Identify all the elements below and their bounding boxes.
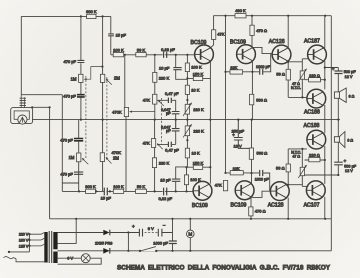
svg-text:1M: 1M — [69, 155, 75, 160]
mains cord squiggle — [4, 256, 45, 261]
node dot base row ch1 — [301, 96, 303, 98]
wire 220ohm row ch2 — [305, 159, 325, 161]
wire AC188 base row ch2 — [288, 148, 307, 150]
resistor 470 Q2 load — [250, 25, 267, 35]
svg-text:SCHEMA ELETTRICO DELLA FONOVAL: SCHEMA ELETTRICO DELLA FONOVALIGIA G.B.C… — [117, 265, 331, 272]
svg-text:2X35 PR8: 2X35 PR8 — [95, 242, 112, 246]
svg-text:47 Ω: 47 Ω — [292, 154, 300, 158]
wire AC188 base row ch1 — [288, 96, 307, 98]
capacitor 500uF ch2 — [334, 158, 357, 173]
capacitor 0.22uF ch2 — [158, 188, 172, 201]
capacitor 1000pF ch1 — [256, 65, 271, 75]
potentiometer 47K ch1 — [143, 94, 164, 106]
svg-text:12 V: 12 V — [345, 75, 353, 79]
capacitor 0.47uF ch2 — [165, 142, 179, 153]
wire mid signal bus — [32, 119, 340, 121]
resistor 56K ch1 — [136, 48, 146, 57]
wire gang link volume dashed — [85, 76, 87, 158]
wire Q1 Q9 emitter column — [209, 61, 211, 183]
transformer primary winding — [44, 232, 47, 263]
resistor 220ohm ch2 — [309, 153, 320, 162]
capacitor 470pF ch1 — [64, 59, 85, 64]
capacitor 15uF ch2 — [160, 178, 180, 183]
svg-text:470 Ω: 470 Ω — [255, 208, 266, 213]
wire 220ohm row ch1 — [305, 79, 325, 81]
capacitor 0.047uF ch2 — [161, 120, 179, 145]
wire 56ohm column ch2 — [287, 149, 289, 185]
wire 220K column ch2 — [154, 120, 156, 192]
svg-text:1M: 1M — [71, 76, 77, 81]
transistor AC128 Q3 — [269, 39, 291, 64]
svg-text:47K: 47K — [143, 98, 150, 103]
wire cartridge output — [32, 107, 49, 219]
node dot base row ch2 — [301, 148, 303, 150]
potentiometer 1M ch2 — [69, 153, 89, 164]
svg-text:500 µF: 500 µF — [344, 70, 357, 74]
potentiometer 2M ch2 — [100, 153, 119, 164]
node dots bootstrap — [224, 71, 226, 174]
svg-text:100 K: 100 K — [113, 48, 124, 53]
svg-text:1000 pF: 1000 pF — [256, 65, 271, 69]
resistor 22K ch1 — [230, 65, 243, 74]
svg-text:220 K: 220 K — [193, 107, 204, 112]
svg-text:10 µF: 10 µF — [159, 66, 170, 71]
pickup cartridge — [11, 108, 33, 125]
svg-text:AC128: AC128 — [268, 203, 284, 209]
wire speaker cap feed ch1 — [325, 68, 339, 92]
wire bootstrap column — [225, 16, 227, 191]
svg-text:56 Ω: 56 Ω — [276, 71, 285, 76]
resistor 300K ch2 — [85, 184, 96, 194]
svg-text:AC128: AC128 — [269, 39, 285, 45]
wire AC128 collector column ch2 — [287, 198, 289, 219]
svg-text:18 V: 18 V — [234, 143, 243, 148]
svg-text:9 V: 9 V — [148, 226, 154, 231]
svg-text:220 Ω: 220 Ω — [309, 153, 320, 158]
wire 56ohm column ch1 — [287, 62, 289, 98]
svg-text:1000 pF: 1000 pF — [255, 177, 270, 181]
diode D2 — [103, 248, 110, 254]
node base junction dots ch1 — [186, 77, 188, 101]
wire ch1 preamp line — [111, 54, 195, 56]
svg-text:300 K: 300 K — [86, 9, 97, 14]
svg-text:10 K: 10 K — [192, 151, 201, 156]
resistor 10K ch1 — [185, 85, 199, 94]
resistor 560 ch2 — [249, 148, 267, 159]
wire right rail vertical — [330, 16, 332, 251]
wire Q2 emitter 560 column — [251, 61, 253, 120]
svg-text:BC109: BC109 — [192, 203, 208, 209]
svg-text:+: + — [232, 133, 235, 138]
svg-text:15 µF: 15 µF — [101, 196, 112, 201]
wire 220K column ch1 — [154, 55, 156, 120]
svg-text:470 pF: 470 pF — [60, 172, 73, 177]
svg-text:56 K: 56 K — [137, 184, 146, 189]
wire Q10 470 column — [250, 197, 252, 218]
capacitor 500uF ch1 — [332, 66, 356, 79]
potentiometer 2M ch1 — [100, 74, 120, 85]
svg-text:0,22 µF: 0,22 µF — [161, 47, 175, 52]
node dot 56ohm tap — [287, 61, 289, 63]
trimmer NTC 47ohm ch1 — [291, 69, 307, 90]
resistor 480K top — [235, 8, 246, 18]
svg-text:125 V: 125 V — [19, 244, 29, 248]
resistor 150K ch2 — [187, 160, 211, 169]
capacitor 15uF ch2 series — [101, 188, 112, 201]
node dot filter — [127, 231, 129, 233]
wire speaker feed ch2 — [337, 120, 339, 137]
svg-text:470K: 470K — [112, 150, 122, 155]
svg-text:+: + — [344, 158, 347, 163]
svg-text:2M: 2M — [114, 76, 120, 81]
transistor AC188 Q5 — [304, 89, 326, 115]
diode D1 — [103, 230, 128, 236]
wire NTC trimmer column ch2 — [301, 149, 303, 187]
svg-text:BC109: BC109 — [191, 40, 207, 46]
capacitor 470uF ch1 — [63, 93, 84, 98]
wire AC187 base stub ch1 — [302, 58, 308, 60]
tone arm leads coil — [20, 95, 26, 108]
trimmer NTC 47ohm ch2 — [291, 151, 306, 178]
node dots top bus — [80, 15, 327, 18]
svg-text:+: + — [332, 66, 335, 71]
svg-text:+: + — [132, 224, 135, 229]
transistor AC187 Q4 — [304, 39, 326, 64]
svg-text:56 K: 56 K — [137, 48, 146, 53]
resistor 47K Q1 load — [212, 30, 225, 40]
trimmer 220 ch1 — [183, 103, 204, 116]
wire tap leads — [29, 233, 44, 246]
svg-text:0,47 µF: 0,47 µF — [165, 147, 179, 152]
svg-text:47K: 47K — [217, 31, 224, 36]
transistor AC187 Q7 — [304, 181, 326, 208]
wire motor column — [189, 219, 191, 251]
wire 2M column — [102, 16, 104, 191]
svg-text:220 K: 220 K — [193, 128, 204, 133]
potentiometer 47K ch2 — [143, 139, 163, 150]
node base junction dots ch2 — [185, 139, 188, 168]
svg-text:470 pF: 470 pF — [64, 59, 77, 64]
svg-text:µF: µF — [166, 129, 171, 133]
wire speaker to bus ch1 — [337, 98, 339, 119]
wire AC187 base stub ch2 — [302, 185, 308, 187]
wire gang link balance dashed — [106, 77, 108, 160]
capacitor filter A — [128, 224, 142, 237]
wire 15uF column ch1 — [110, 16, 112, 54]
wire volume column ch2 — [78, 120, 80, 192]
resistor 56K ch2 — [136, 184, 147, 193]
svg-text:47K: 47K — [143, 141, 150, 146]
wire volume column ch1 — [80, 16, 82, 119]
capacitor 470uF ch2 — [60, 137, 83, 142]
wire cap bottom row ch2 — [302, 174, 338, 176]
resistor 300K ch1 — [86, 9, 97, 19]
wire ch2 preamp line — [62, 190, 193, 192]
capacitor 0.47uF ch1 — [165, 91, 179, 103]
potentiometer 470K ch1 — [112, 108, 155, 117]
svg-text:47K: 47K — [215, 183, 222, 188]
node dot 56ohm tap ch2 — [287, 184, 289, 186]
wire 22K 1000pF row ch2 — [225, 173, 270, 191]
svg-text:2M: 2M — [113, 156, 119, 161]
svg-text:220 Ω: 220 Ω — [309, 73, 320, 78]
wire filter link vertical — [127, 233, 129, 251]
wire supply rail — [50, 218, 332, 220]
svg-text:BC109: BC109 — [231, 203, 247, 209]
wire AC128 output row ch1 — [286, 61, 302, 63]
resistor 150K ch1 — [187, 72, 210, 81]
trimmer 220 ch2 — [183, 124, 204, 137]
capacitor 0.22uF ch1 — [161, 47, 175, 58]
svg-text:300 K: 300 K — [85, 184, 96, 189]
wire left lower horizontal — [21, 94, 62, 96]
wire base network column ch1 — [186, 55, 188, 120]
resistor 100K ch1 — [113, 48, 124, 57]
node dots mid bus — [80, 119, 340, 121]
wire NTC trimmer column ch1 — [301, 59, 303, 98]
capacitor filter B — [158, 223, 172, 236]
capacitor 250uF ch2 — [232, 119, 250, 149]
motor M — [187, 230, 195, 238]
svg-text:470 µF: 470 µF — [60, 137, 73, 142]
speaker ch1 — [334, 88, 354, 102]
wire 22K 1000pF row ch1 — [226, 54, 271, 72]
transformer secondary winding lower — [53, 252, 57, 264]
wire Q2 collector column and coupling — [252, 16, 272, 54]
node dots mains taps — [8, 233, 31, 253]
svg-text:6 V: 6 V — [67, 256, 73, 260]
svg-text:480 K: 480 K — [235, 8, 246, 13]
svg-text:160 V: 160 V — [19, 238, 29, 242]
svg-text:470 µF: 470 µF — [63, 93, 76, 98]
lamp loop wires — [58, 258, 102, 264]
resistor 56ohm ch2 — [276, 164, 290, 172]
capacitor 1000uF — [153, 240, 177, 245]
speaker ch2 — [334, 132, 353, 148]
svg-text:560 Ω: 560 Ω — [257, 151, 268, 156]
wire secondary mid tap — [58, 219, 77, 244]
wire output emitter column — [324, 16, 326, 219]
svg-text:15 µF: 15 µF — [160, 178, 171, 183]
svg-text:0,47 µF: 0,47 µF — [165, 91, 179, 96]
svg-text:M: M — [188, 232, 192, 237]
transistor AC188 Q6 — [304, 123, 326, 149]
svg-text:470 Ω: 470 Ω — [256, 28, 267, 33]
resistor 100K base ch2 — [184, 175, 201, 185]
wire 470K column — [125, 55, 126, 192]
svg-text:500 µF: 500 µF — [344, 164, 357, 168]
svg-text:22K: 22K — [233, 166, 240, 171]
capacitor 0.047uF ch1 — [161, 108, 179, 120]
svg-text:100 K: 100 K — [191, 65, 202, 70]
svg-text:150 K: 150 K — [193, 72, 204, 77]
wire top feedback line left segment — [21, 15, 111, 17]
resistor 470 ch2 — [249, 207, 266, 216]
wire 0.47uF ch1 — [157, 100, 176, 111]
wire AC128 collector column ch1 — [287, 16, 289, 48]
svg-text:220 V: 220 V — [19, 233, 29, 237]
svg-text:8 Ω: 8 Ω — [347, 138, 353, 142]
svg-text:AC188: AC188 — [304, 123, 320, 129]
resistor 100K ch2 — [113, 184, 124, 193]
wire bottom bus — [58, 250, 332, 252]
resistor 220K ch2 — [152, 158, 169, 168]
switch power — [139, 246, 158, 252]
wire 0.47uF ch2 — [157, 143, 176, 145]
node dots ch2 line — [78, 190, 188, 192]
svg-text:22K: 22K — [230, 65, 237, 70]
svg-text:10 K: 10 K — [191, 87, 200, 92]
svg-text:−: − — [163, 223, 166, 228]
capacitor 1000pF ch2 — [255, 170, 270, 182]
svg-text:560 Ω: 560 Ω — [256, 98, 267, 103]
wire Q1 collector column — [211, 16, 214, 48]
svg-text:56 Ω: 56 Ω — [276, 166, 285, 171]
transformer secondary winding upper — [53, 232, 57, 249]
svg-text:AC187: AC187 — [304, 39, 320, 45]
svg-text:AC107: AC107 — [304, 202, 320, 208]
resistor 220ohm ch1 — [309, 73, 321, 82]
capacitor 15uF ch1 — [108, 33, 126, 38]
resistor 100K base ch1 — [185, 63, 202, 72]
svg-text:BC109: BC109 — [230, 40, 246, 46]
transistor AC128 Q8 — [268, 182, 289, 209]
lamp 6V — [67, 254, 90, 263]
node dots rails — [31, 106, 326, 252]
resistor 220K ch1 — [153, 72, 170, 82]
resistor 56ohm ch1 — [276, 69, 290, 80]
wire top supply bus right segment — [213, 15, 331, 17]
svg-text:220 K: 220 K — [159, 160, 170, 165]
svg-text:150 K: 150 K — [193, 160, 204, 165]
resistor 560 ch1 — [250, 94, 267, 105]
wire mains tap column — [9, 234, 29, 252]
wire 10uF link ch1 — [176, 55, 188, 80]
node dot 1000pF ch1 — [250, 71, 253, 174]
potentiometer 1M ch1 — [71, 66, 104, 83]
label 9V — [145, 226, 158, 232]
node dot cap row ch2 — [337, 174, 339, 176]
transformer core — [49, 231, 52, 263]
svg-text:220 K: 220 K — [159, 75, 170, 80]
svg-text:N.T.C.: N.T.C. — [291, 86, 301, 90]
svg-text:15 µF: 15 µF — [116, 33, 127, 38]
node dot emitter 150K ch2 — [209, 166, 211, 168]
svg-text:100 K: 100 K — [113, 184, 124, 189]
svg-text:µF: µF — [166, 112, 171, 116]
transistor BC109 Q1 — [191, 40, 214, 64]
wire secondary top lead — [58, 232, 104, 234]
wire left frame vertical — [20, 16, 22, 94]
wire 560 column ch2 — [251, 120, 253, 184]
svg-text:0,22 µF: 0,22 µF — [158, 196, 172, 201]
wire base network column ch2 — [186, 120, 189, 192]
capacitor 10uF ch1 — [159, 66, 182, 71]
wire AC128 output row ch2 — [286, 184, 302, 186]
node dot motor rail — [189, 218, 191, 220]
node dots preamp line ch1 — [124, 54, 189, 56]
resistor 22K ch2 — [230, 166, 243, 175]
svg-text:8 Ω: 8 Ω — [349, 94, 355, 98]
svg-text:470K: 470K — [112, 109, 122, 114]
svg-text:1000 µF: 1000 µF — [153, 240, 168, 245]
svg-text:AC188: AC188 — [304, 110, 320, 116]
wire 1000uF column — [172, 219, 174, 251]
wire 15uF link ch2 — [176, 167, 187, 192]
wire Q10 collector column coupling — [251, 191, 270, 197]
svg-text:12 V: 12 V — [345, 169, 353, 173]
capacitor 470pF ch2 — [60, 172, 83, 177]
wire speaker to cap ch2 — [337, 142, 339, 175]
resistor 47K ch2 bootstrap — [215, 181, 228, 191]
node dots output column — [324, 66, 326, 161]
transistor BC109 Q10 — [231, 181, 255, 209]
resistor 10K ch2 — [185, 148, 200, 158]
transistor BC109 Q9 — [192, 181, 212, 209]
wire vertical x62 — [62, 95, 78, 192]
transistor BC109 Q2 — [230, 40, 255, 64]
wire gang link tone dashed — [160, 98, 162, 145]
